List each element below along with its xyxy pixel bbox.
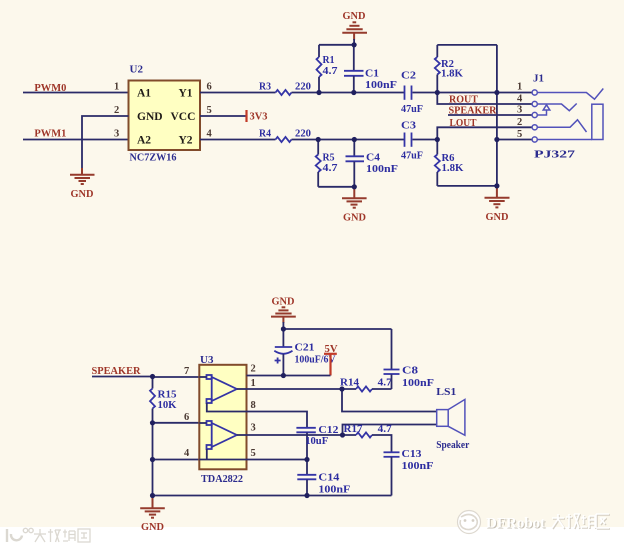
wire U3 pin6 <box>153 422 200 424</box>
svg-text:C2: C2 <box>401 70 417 82</box>
svg-text:C21: C21 <box>295 342 315 354</box>
ground symbol under jack <box>485 198 510 208</box>
wire node D row <box>292 139 405 141</box>
node pin1 speaker <box>339 386 344 391</box>
svg-text:DFRobot: DFRobot <box>486 516 545 532</box>
power bar 3V3 <box>245 110 247 122</box>
svg-text:100nF: 100nF <box>402 377 434 389</box>
svg-text:3: 3 <box>251 423 256 434</box>
ground stem under jack <box>496 186 498 198</box>
svg-text:Y1: Y1 <box>179 88 193 100</box>
node bus gnd <box>494 183 499 188</box>
node C <box>435 137 440 142</box>
ground symbol under C4 <box>342 198 367 208</box>
resistor R17 <box>356 433 372 438</box>
svg-text:3: 3 <box>517 105 522 116</box>
capacitor C8 <box>384 329 400 389</box>
pin 5 circle <box>532 137 537 142</box>
wire PWM1 <box>23 139 129 141</box>
svg-text:100nF: 100nF <box>365 79 397 91</box>
ground stem U2 pin2 <box>81 168 83 174</box>
wire C2 to node B <box>413 92 497 94</box>
IC U3 TDA2822 body <box>199 365 246 470</box>
wire jack pin1 <box>497 92 532 94</box>
capacitor C13 <box>384 452 400 495</box>
node pin6 <box>150 420 155 425</box>
resistor R5 <box>316 140 321 187</box>
resistor R14 <box>356 387 372 392</box>
svg-text:SPEAKER: SPEAKER <box>449 105 498 117</box>
svg-text:4.7: 4.7 <box>323 162 339 174</box>
svg-text:4.7: 4.7 <box>323 65 339 77</box>
svg-text:SPEAKER: SPEAKER <box>92 365 142 377</box>
power bar 5V <box>324 353 337 355</box>
wire speaker bottom lead <box>343 425 437 436</box>
svg-text:4: 4 <box>207 129 213 140</box>
jack pin3 contact with arrow <box>538 110 547 115</box>
wire node A row <box>292 92 405 94</box>
wire U3 pin1 <box>247 388 357 390</box>
wire R14 to C8 <box>372 388 392 390</box>
svg-text:GND: GND <box>137 111 163 123</box>
rail R6 bottom <box>437 185 497 187</box>
wire U2 pin6 <box>200 92 276 94</box>
svg-text:8: 8 <box>251 400 256 411</box>
node speaker/R15 <box>150 374 155 379</box>
watermark bottom left <box>7 528 90 542</box>
svg-text:7: 7 <box>184 366 189 377</box>
svg-text:2: 2 <box>114 105 119 116</box>
wire U2 pin5 VCC <box>200 115 246 117</box>
svg-text:LOUT: LOUT <box>450 117 478 129</box>
jack pin1 contact <box>538 89 604 100</box>
wire R17 to C13 <box>372 435 392 452</box>
svg-text:2: 2 <box>517 117 522 128</box>
wire U2 pin2 to ground <box>82 116 129 168</box>
capacitor C12 <box>296 428 315 460</box>
jack pin2 contact <box>538 120 587 132</box>
svg-text:220: 220 <box>295 127 311 139</box>
svg-text:2: 2 <box>251 364 256 375</box>
vertical ground bus right <box>496 45 498 186</box>
svg-text:C1: C1 <box>365 68 379 80</box>
svg-text:U2: U2 <box>130 64 144 76</box>
resistor R6 <box>435 140 440 186</box>
node gnd rail C21 <box>281 326 286 331</box>
node C1 bottom <box>351 90 356 95</box>
svg-text:GND: GND <box>486 211 509 223</box>
svg-text:VCC: VCC <box>171 111 196 123</box>
svg-text:220: 220 <box>295 81 311 93</box>
wire speaker top lead <box>342 389 437 412</box>
wire ROUT riser <box>437 93 532 105</box>
svg-text:1: 1 <box>517 82 522 93</box>
svg-text:C3: C3 <box>401 119 417 131</box>
svg-text:4.7: 4.7 <box>378 423 393 435</box>
wire U3 pin8 to C12 <box>247 412 308 428</box>
svg-text:100nF: 100nF <box>402 460 434 472</box>
ground stem top GND <box>353 33 355 40</box>
svg-text:C13: C13 <box>402 448 423 460</box>
svg-text:A1: A1 <box>137 88 151 100</box>
node gnd top <box>352 42 357 47</box>
wire SPEAKER <box>448 114 532 116</box>
svg-text:GND: GND <box>343 211 366 223</box>
svg-text:NC7ZW16: NC7ZW16 <box>130 152 177 164</box>
watermark bottom right text <box>486 516 546 533</box>
svg-text:10K: 10K <box>158 399 177 411</box>
wire jack pin5 <box>497 139 532 141</box>
svg-text:6: 6 <box>207 82 212 93</box>
svg-text:PJ327: PJ327 <box>534 149 576 161</box>
svg-text:C8: C8 <box>402 365 419 377</box>
capacitor C4 <box>346 140 365 187</box>
node C4 gnd <box>352 184 357 189</box>
node R5 top <box>316 137 321 142</box>
svg-text:4: 4 <box>517 94 523 105</box>
wire SPEAKER to U3 pin7 <box>92 376 153 378</box>
pin 4 circle <box>532 101 537 106</box>
resistor R3 <box>276 90 292 95</box>
svg-text:10uF: 10uF <box>305 435 328 447</box>
wire U3 pin3 <box>247 434 357 436</box>
wire LOUT riser <box>437 127 532 139</box>
svg-text:1.8K: 1.8K <box>441 68 463 80</box>
svg-text:LS1: LS1 <box>436 386 456 398</box>
rail gnd to C8 <box>283 328 391 330</box>
jack pin4 contact <box>538 104 577 111</box>
ground symbol amp bottom <box>140 508 165 518</box>
capacitor C21 (polarized) <box>274 329 292 376</box>
svg-text:3V3: 3V3 <box>250 111 268 123</box>
svg-text:TDA2822: TDA2822 <box>201 473 243 485</box>
svg-text:GND: GND <box>272 296 295 308</box>
node R1 bottom <box>316 90 321 95</box>
rail R2 top <box>437 44 497 46</box>
wire U2 pin4 <box>200 139 276 141</box>
svg-text:100nF: 100nF <box>318 483 350 495</box>
op-amp B triangle <box>199 421 246 460</box>
watermark CJK glyph blocks <box>552 514 609 528</box>
svg-text:6: 6 <box>184 412 189 423</box>
svg-text:GND: GND <box>141 521 164 533</box>
watermark CJK glyph shadow <box>553 515 610 529</box>
svg-text:PWM1: PWM1 <box>34 127 66 139</box>
svg-text:A2: A2 <box>137 135 151 147</box>
wire left bus down <box>152 423 154 496</box>
node pin4 <box>150 457 155 462</box>
ground stem amp bottom <box>152 496 154 509</box>
svg-text:R4: R4 <box>259 127 271 139</box>
wire PWM0 <box>23 92 129 94</box>
svg-text:U3: U3 <box>200 354 214 366</box>
ground symbol top (flipped) <box>342 22 367 32</box>
svg-text:Y2: Y2 <box>179 135 193 147</box>
capacitor C2 (series) <box>405 86 412 100</box>
svg-text:5: 5 <box>517 129 522 140</box>
node C14 gnd <box>304 493 309 498</box>
IC U2 NC7ZW16 body <box>129 81 201 151</box>
pin 2 circle <box>532 125 537 130</box>
node bus pin1 <box>494 90 499 95</box>
node bus pin5 <box>494 137 499 142</box>
svg-text:R17: R17 <box>344 423 363 435</box>
resistor R4 <box>276 137 292 142</box>
node pin3 speaker <box>340 432 345 437</box>
svg-text:Speaker: Speaker <box>436 439 469 451</box>
watermark bottom right DFRobot logo <box>458 511 481 534</box>
ground stem under C4 <box>353 187 355 198</box>
ground stem amp top <box>282 317 284 323</box>
speaker LS1 symbol <box>437 399 465 435</box>
capacitor C14 <box>297 460 316 496</box>
node pin5 C14 <box>304 457 309 462</box>
node B <box>435 90 440 95</box>
svg-text:100uF/6V: 100uF/6V <box>295 354 336 366</box>
node C4 top <box>352 137 357 142</box>
resistor R15 <box>150 377 155 423</box>
node left gnd <box>150 493 155 498</box>
resistor R1 <box>317 45 322 93</box>
svg-text:3: 3 <box>114 129 119 140</box>
wire U3 pin2 <box>247 375 331 377</box>
pin 3 circle <box>532 112 537 117</box>
svg-text:C14: C14 <box>318 472 340 484</box>
wire U3 pin5 <box>247 459 308 461</box>
ground rail bottom left channel <box>318 186 354 188</box>
svg-text:5: 5 <box>251 448 256 459</box>
jack body <box>592 104 603 139</box>
svg-text:4.7: 4.7 <box>378 377 393 389</box>
svg-text:C4: C4 <box>366 152 381 164</box>
svg-text:4: 4 <box>184 448 190 459</box>
pin 1 circle <box>532 90 537 95</box>
jack pin5 wire <box>538 139 592 141</box>
svg-text:1.8K: 1.8K <box>442 162 464 174</box>
ground symbol below U2 <box>70 175 95 184</box>
svg-text:47uF: 47uF <box>401 150 423 162</box>
svg-text:GND: GND <box>343 10 366 22</box>
capacitor C3 (series) <box>405 133 412 147</box>
ground symbol amp top (flipped) <box>271 307 296 316</box>
capacitor C1 <box>344 45 364 93</box>
svg-text:GND: GND <box>71 188 94 200</box>
svg-text:5: 5 <box>207 105 212 116</box>
ground rail top left <box>319 44 354 46</box>
resistor R2 <box>435 45 440 93</box>
svg-text:R3: R3 <box>259 81 271 93</box>
svg-text:47uF: 47uF <box>401 103 423 115</box>
svg-text:PWM0: PWM0 <box>34 82 66 94</box>
connector J1 PJ327 <box>532 89 603 143</box>
svg-text:J1: J1 <box>533 73 544 85</box>
svg-text:100nF: 100nF <box>366 163 398 175</box>
svg-text:1: 1 <box>251 378 256 389</box>
wire C3 to node C <box>413 139 438 141</box>
ground rail amp bottom <box>153 495 392 497</box>
wire U3 pin4 <box>153 459 200 461</box>
op-amp A triangle <box>199 375 246 412</box>
svg-text:1: 1 <box>114 82 119 93</box>
node C21 pin2 <box>281 373 286 378</box>
